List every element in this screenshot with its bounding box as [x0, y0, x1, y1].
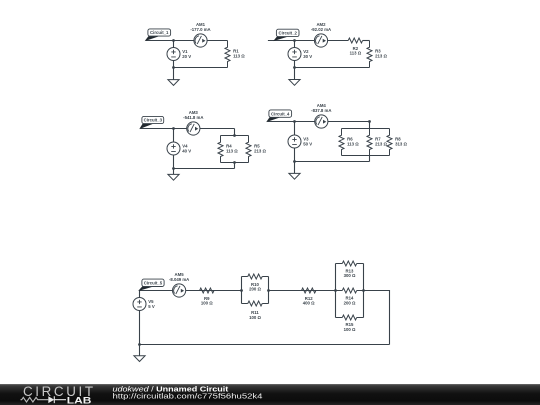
- resistor R9: [200, 288, 214, 306]
- R15 leads: [336, 317, 364, 319]
- svg-text:-8.049 mA: -8.049 mA: [169, 277, 189, 282]
- voltage source V2: [288, 48, 312, 61]
- node junction: [368, 120, 371, 123]
- logo resistor zigzag: [21, 397, 49, 402]
- svg-text:200 Ω: 200 Ω: [249, 287, 261, 292]
- svg-text:400 Ω: 400 Ω: [303, 301, 315, 306]
- R13-R15 box right bar: [363, 264, 365, 318]
- circuit 4 wire into parallel box: [369, 122, 371, 129]
- R10/R11 box right bar: [268, 277, 270, 304]
- circuit 4 source branch wire: [294, 122, 296, 162]
- svg-text:113 Ω: 113 Ω: [347, 142, 359, 147]
- circuit 1 bottom wire: [174, 67, 228, 69]
- node junction: [334, 289, 337, 292]
- svg-text:Circuit_4: Circuit_4: [271, 111, 290, 116]
- svg-text:313 Ω: 313 Ω: [395, 142, 407, 147]
- resistor R5: [246, 136, 266, 163]
- circuit 2 top wire: [268, 40, 348, 42]
- ground: [289, 173, 300, 179]
- R11 leads: [242, 303, 269, 305]
- resistor R15: [342, 315, 356, 332]
- svg-text:Circuit_2: Circuit_2: [279, 31, 298, 36]
- ground: [134, 356, 145, 362]
- circuit 2 bottom wire: [295, 67, 370, 69]
- node junction: [293, 39, 296, 42]
- svg-text:100 Ω: 100 Ω: [344, 327, 356, 332]
- node junction: [172, 66, 175, 69]
- svg-text:100 Ω: 100 Ω: [201, 301, 213, 306]
- ground stub: [139, 345, 141, 356]
- ground stub: [294, 162, 296, 174]
- svg-text:113 Ω: 113 Ω: [226, 149, 238, 154]
- svg-text:213 Ω: 213 Ω: [254, 149, 266, 154]
- circuit 5 top wire left: [140, 290, 242, 292]
- circuit 3 box bottom bar: [221, 162, 249, 164]
- circuit 1 source branch wire: [173, 41, 175, 68]
- ammeter AM4: [311, 103, 331, 128]
- node junction: [267, 289, 270, 292]
- node junction: [233, 134, 236, 137]
- R14 leads: [336, 290, 364, 292]
- circuit 4 bottom wire: [295, 161, 370, 163]
- logo diode: [48, 396, 54, 403]
- node junction: [172, 167, 175, 170]
- circuit 3 wire into parallel box: [234, 129, 236, 136]
- resistor R7: [367, 129, 387, 156]
- svg-text:213 Ω: 213 Ω: [375, 54, 387, 59]
- ammeter AM3: [183, 110, 203, 135]
- resistor R4: [218, 136, 238, 163]
- circuit 2 top wire right of R2: [363, 40, 370, 42]
- voltage source V4: [167, 142, 191, 155]
- svg-text:-92.02 mA: -92.02 mA: [311, 27, 331, 32]
- ammeter AM2: [311, 22, 331, 47]
- svg-text:213 Ω: 213 Ω: [375, 142, 387, 147]
- circuit 3 box top bar: [221, 135, 249, 137]
- circuit 5 source branch wire: [139, 291, 141, 345]
- flag Circuit_2: [274, 29, 299, 40]
- ground: [168, 174, 179, 180]
- resistor R14: [342, 288, 356, 305]
- node junction: [293, 160, 296, 163]
- resistor R3: [367, 41, 387, 68]
- voltage source V3: [288, 135, 312, 148]
- voltage source V1: [167, 48, 191, 61]
- resistor R1: [225, 41, 245, 68]
- svg-text:113 Ω: 113 Ω: [233, 54, 245, 59]
- resistor R10: [248, 274, 262, 292]
- flag Circuit_3: [140, 116, 164, 128]
- node junction: [240, 289, 243, 292]
- circuit 1 top wire: [146, 40, 228, 42]
- circuit 5 bottom wire: [140, 344, 390, 346]
- flag Circuit_4: [267, 110, 291, 121]
- circuit 3 top wire: [140, 128, 234, 130]
- node junction: [138, 343, 141, 346]
- node junction: [233, 161, 236, 164]
- svg-text:30 V: 30 V: [303, 54, 312, 59]
- R13 leads: [336, 263, 364, 265]
- svg-text:Circuit_1: Circuit_1: [150, 30, 169, 35]
- resistor R8: [387, 129, 407, 156]
- svg-text:300 Ω: 300 Ω: [344, 273, 356, 278]
- svg-text:40 V: 40 V: [182, 149, 191, 154]
- resistor R11: [248, 301, 262, 320]
- ammeter AM5: [169, 272, 189, 297]
- svg-text:Circuit_3: Circuit_3: [144, 118, 163, 123]
- node junction: [362, 289, 365, 292]
- flag Circuit_1: [146, 29, 171, 40]
- svg-text:http://circuitlab.com/c775f56h: http://circuitlab.com/c775f56hu52k4: [113, 392, 263, 401]
- svg-text:-837.8 mA: -837.8 mA: [311, 108, 331, 113]
- circuit 3 bottom wire: [174, 168, 235, 170]
- circuit 5 top wire middle: [269, 290, 336, 292]
- resistor R13: [342, 261, 356, 278]
- ground: [289, 80, 300, 86]
- circuit 4 top wire: [267, 121, 369, 123]
- svg-text:200 Ω: 200 Ω: [344, 300, 356, 305]
- svg-text:113 Ω: 113 Ω: [350, 51, 362, 56]
- svg-text:5 V: 5 V: [148, 304, 155, 309]
- svg-text:20 V: 20 V: [182, 54, 191, 59]
- circuit 4 box top bar: [342, 128, 390, 130]
- svg-text:100 Ω: 100 Ω: [249, 315, 261, 320]
- circuit 4 box bottom bar: [342, 155, 390, 157]
- svg-text:LAB: LAB: [67, 396, 92, 405]
- resistor R2: [348, 38, 362, 56]
- circuit 4 wire out of parallel box: [369, 156, 371, 162]
- ground stub: [173, 169, 175, 175]
- circuit 3 source branch wire: [173, 129, 175, 169]
- resistor R6: [339, 129, 359, 156]
- R13-R15 box left bar: [335, 264, 337, 318]
- node junction: [172, 127, 175, 130]
- svg-text:-177.0 mA: -177.0 mA: [190, 27, 210, 32]
- ground: [168, 80, 179, 86]
- svg-text:Circuit_5: Circuit_5: [144, 281, 163, 286]
- circuit 2 source branch wire: [294, 41, 296, 68]
- svg-text:50 V: 50 V: [303, 142, 312, 147]
- flag Circuit_5: [139, 279, 164, 290]
- ground stub: [173, 68, 175, 80]
- resistor R12: [302, 288, 316, 306]
- node junction: [293, 66, 296, 69]
- svg-text:-541.8 mA: -541.8 mA: [183, 115, 203, 120]
- voltage source V5: [133, 298, 155, 311]
- R10/R11 box left bar: [241, 277, 243, 304]
- R10 leads: [242, 276, 269, 278]
- ground stub: [294, 68, 296, 80]
- circuit 5 top wire right and right side: [364, 291, 390, 345]
- ammeter AM1: [190, 22, 210, 47]
- node junction: [172, 39, 175, 42]
- node junction: [293, 120, 296, 123]
- circuit 3 wire out of parallel box: [234, 163, 236, 169]
